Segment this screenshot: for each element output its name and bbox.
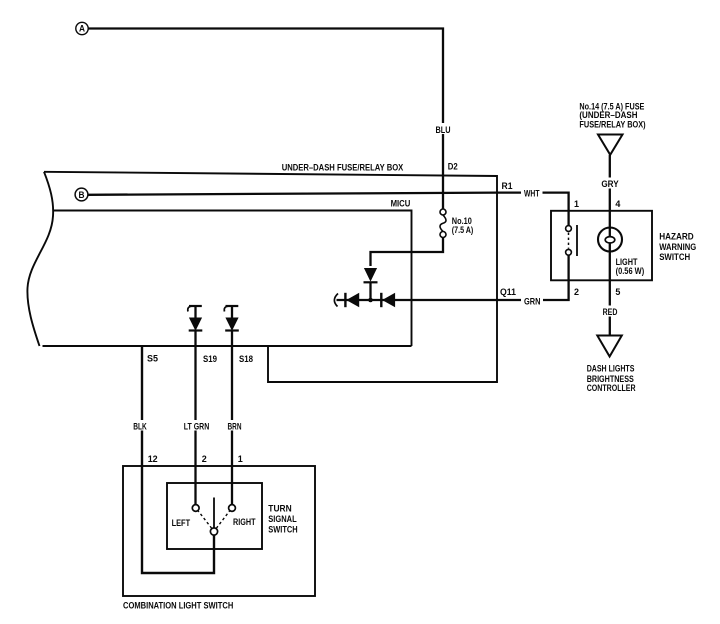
hazard warning switch box [551,211,652,280]
wire from A to D2 (BLU) [88,29,443,210]
svg-text:FUSE/RELAY BOX): FUSE/RELAY BOX) [579,119,645,129]
combination light switch box [123,466,315,596]
wire RED from hazard pin 5 to controller [609,280,611,335]
svg-text:SIGNAL: SIGNAL [268,514,297,524]
svg-text:R1: R1 [502,181,513,191]
turn signal switch common contact [210,528,217,535]
label LT GRN [182,420,211,431]
svg-text:SWITCH: SWITCH [659,252,690,262]
fuse No.10 (7.5 A) [440,209,446,238]
turn signal switch LEFT contact [192,505,199,512]
wire S5 (BLK) to turn signal common [142,346,214,573]
turn signal switch box [167,483,262,549]
wire S18 (BRN) to RIGHT contact [231,346,233,505]
svg-text:RIGHT: RIGHT [233,517,256,527]
svg-text:MICU: MICU [391,198,411,208]
label WHT [521,188,543,199]
label BRN [226,420,243,431]
under-dash fuse/relay box outline [27,172,497,382]
diode S18 hook [224,306,228,312]
svg-text:S19: S19 [203,354,217,364]
svg-text:SWITCH: SWITCH [268,524,298,534]
svg-text:12: 12 [148,454,158,464]
wire Q11 horizontal (GRN) to hazard pin 2 [337,280,569,300]
diode S19 (MICU internal, down) [189,306,203,346]
node A (circled connector A) [76,22,88,34]
svg-text:GRN: GRN [524,297,541,307]
svg-text:1: 1 [574,199,579,209]
svg-text:S5: S5 [147,353,158,363]
label GRN [521,296,543,307]
value label LIGHT (0.56 W) [616,257,645,276]
label BLK [132,420,149,431]
hook at left end of Q11 wire [334,294,338,307]
turn signal switch RIGHT contact [229,505,236,512]
diode D-down (MICU internal) [364,269,378,301]
svg-text:WHT: WHT [524,189,540,199]
svg-text:DASH LIGHTS: DASH LIGHTS [587,364,635,374]
diode D-left-1 [345,293,358,307]
svg-text:2: 2 [574,287,579,297]
connector triangle to dash lights brightness controller [597,336,622,357]
hazard switch contacts [566,211,577,280]
junction dot at diode node [368,298,373,303]
svg-text:HAZARD: HAZARD [659,231,694,241]
svg-text:2: 2 [202,454,207,464]
svg-text:BLU: BLU [436,125,451,135]
svg-text:RED: RED [603,307,618,317]
node B (circled connector B) [75,188,88,201]
label HAZARD WARNING SWITCH [659,231,696,262]
diode S19 hook [188,306,192,312]
svg-text:GRY: GRY [601,179,619,189]
svg-text:D2: D2 [448,162,458,172]
diode D-left-2 [381,293,394,307]
svg-text:LEFT: LEFT [172,518,191,528]
switch arm [213,498,215,528]
dashed link to LEFT [198,511,212,529]
wire fuse output to diode D-down [371,238,444,267]
svg-text:BRN: BRN [228,421,242,431]
svg-text:1: 1 [238,454,243,464]
MICU box [53,211,412,347]
wire GRY from fuse triangle to hazard pin 4 [609,155,611,211]
svg-text:CONTROLLER: CONTROLLER [587,383,636,393]
svg-text:5: 5 [615,287,620,297]
svg-text:(7.5 A): (7.5 A) [452,225,474,235]
svg-text:TURN: TURN [268,503,292,513]
wire S19 (LT GRN) to LEFT contact [194,346,196,505]
svg-text:A: A [79,24,85,34]
label DASH LIGHTS BRIGHTNESS CONTROLLER [587,364,636,394]
svg-text:LT GRN: LT GRN [184,421,210,431]
svg-text:Q11: Q11 [500,287,516,297]
svg-text:S18: S18 [239,354,253,364]
svg-text:COMBINATION LIGHT SWITCH: COMBINATION LIGHT SWITCH [123,600,234,610]
svg-text:BLK: BLK [133,421,147,431]
label GRY [600,178,621,189]
label BLU [434,123,452,135]
label TURN SIGNAL SWITCH [268,503,298,534]
svg-text:(0.56 W): (0.56 W) [616,266,645,276]
svg-text:WARNING: WARNING [659,242,696,252]
connector triangle to No.14 fuse [598,135,623,155]
svg-text:UNDER–DASH FUSE/RELAY BOX: UNDER–DASH FUSE/RELAY BOX [282,163,404,173]
svg-text:B: B [79,190,85,200]
value label No.10 (7.5 A) [452,216,474,235]
label No.14 (7.5 A) FUSE (UNDER-DASH FUSE/RELAY BOX) [579,101,645,129]
diode S18 (MICU internal, down) [225,306,239,346]
dashed link to RIGHT [216,511,230,529]
label RED [601,306,619,317]
wire from B to R1 and WHT to hazard pin 1 [88,193,569,211]
lamp LIGHT (0.56 W) [598,211,622,280]
svg-text:4: 4 [615,199,621,209]
